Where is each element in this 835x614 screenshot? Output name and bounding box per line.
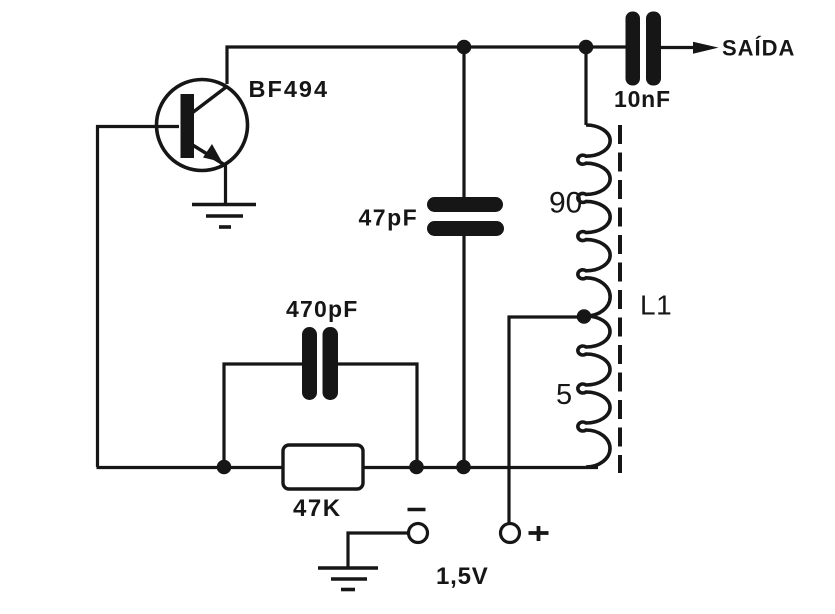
junction node: bottom rail / 470pF right bbox=[409, 460, 424, 475]
svg-text:470pF: 470pF bbox=[286, 296, 358, 322]
svg-text:47K: 47K bbox=[293, 495, 342, 522]
svg-text:5: 5 bbox=[556, 379, 572, 411]
svg-text:1,5V: 1,5V bbox=[436, 563, 489, 590]
capacitor C1 47pF bbox=[427, 197, 504, 236]
wire: bottom rail bbox=[97, 466, 599, 469]
wire: left vertical from base to bottom rail bbox=[98, 127, 180, 468]
wire: minus terminal to ground bbox=[348, 533, 408, 567]
output arrowhead bbox=[693, 42, 719, 54]
ground (transistor emitter) bbox=[192, 205, 256, 228]
transistor Q1 BF494 bbox=[157, 80, 248, 204]
wire: 470pF branch bbox=[224, 364, 417, 467]
wire: output arrow shaft bbox=[661, 46, 708, 49]
capacitor C2 470pF bbox=[302, 327, 338, 400]
junction node: bottom rail / 47pF bbox=[456, 460, 471, 475]
battery minus terminal bbox=[409, 524, 428, 543]
ground (battery) bbox=[318, 568, 378, 590]
capacitor C3 10nF bbox=[626, 12, 662, 86]
svg-text:L1: L1 bbox=[640, 290, 672, 321]
battery plus terminal bbox=[501, 524, 520, 543]
inductor L1 winding (90 turns section) bbox=[578, 125, 610, 316]
wire: coil tap to battery plus bbox=[509, 317, 584, 523]
resistor R1 47K bbox=[283, 445, 363, 489]
junction node: top rail / coil bbox=[579, 40, 594, 55]
svg-text:10nF: 10nF bbox=[614, 86, 671, 112]
wire: coil top lead bbox=[584, 47, 587, 125]
junction node: bottom rail / 470pF left bbox=[217, 460, 232, 475]
svg-text:SAÍDA: SAÍDA bbox=[722, 36, 795, 61]
svg-text:90: 90 bbox=[549, 187, 582, 220]
svg-text:BF494: BF494 bbox=[249, 76, 330, 102]
inductor L1 core dashed line bbox=[618, 125, 622, 473]
wire: 47pF branch vertical bbox=[462, 47, 465, 467]
wire: top rail from collector to 10nF bbox=[227, 47, 626, 84]
svg-text:47pF: 47pF bbox=[359, 205, 419, 231]
junction node: top rail / 47pF bbox=[457, 40, 472, 55]
plus sign bbox=[529, 526, 549, 541]
inductor L1 winding (5 turns section) bbox=[578, 316, 610, 467]
junction node: coil tap bbox=[577, 309, 592, 324]
minus sign bbox=[408, 508, 426, 512]
